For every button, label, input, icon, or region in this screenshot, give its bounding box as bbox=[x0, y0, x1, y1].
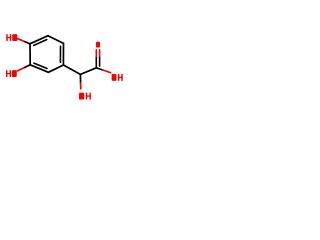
bond C7-OH (down to OH label, red half near O) bbox=[79, 74, 81, 82]
benzene ring bond C1-C2 (lower-left edge) bbox=[30, 65, 48, 73]
chemical structure: 3,4-dihydroxymandelic acid bbox=[0, 0, 130, 130]
label HO (lower-left) letter H bbox=[6, 70, 7, 77]
label OH (alpha-hydroxy) letter H bbox=[86, 93, 87, 100]
benzene ring bond C5-C6 (right edge) bbox=[62, 43, 64, 65]
bond C4-OH (to top-left HO label, red half near O) bbox=[18, 39, 25, 42]
label O (carbonyl oxygen) bbox=[96, 42, 100, 48]
label HO (top-left) letter H bbox=[6, 34, 7, 41]
bond C8-OH (to right OH label, red half near O) bbox=[96, 68, 102, 70]
benzene ring bond C4-C5 (upper-right edge) bbox=[48, 36, 64, 44]
label OH (carboxyl) letter O bbox=[112, 74, 117, 81]
carboxyl C8=O double bond line 2 (red near O, black near C) bbox=[99, 50, 101, 58]
carboxyl C8=O double bond line 1 (red near O, black near C) bbox=[95, 50, 97, 58]
label OH (carboxyl) letter H bbox=[118, 74, 119, 81]
label OH (alpha-hydroxy) letter O bbox=[79, 93, 84, 100]
bond C6-C7 (ring to CH carbon) bbox=[63, 65, 80, 74]
benzene ring bond C3-C4 (upper-left edge) bbox=[30, 36, 48, 44]
benzene ring double bond inner line (lower-left) bbox=[34, 63, 47, 68]
label HO (top-left) letter O bbox=[12, 34, 17, 41]
benzene ring double bond inner line (upper-left) bbox=[34, 40, 47, 46]
label HO (lower-left) letter O bbox=[12, 70, 17, 77]
benzene ring bond C6-C1 (lower-right edge) bbox=[48, 65, 63, 72]
bond C7-C8 (CH to carboxyl carbon) bbox=[80, 68, 96, 75]
benzene ring double bond inner line (right) bbox=[59, 46, 61, 62]
benzene ring bond C2-C3 (left edge) bbox=[29, 44, 31, 65]
bond C3-OH (to lower-left HO label, red half near O) bbox=[17, 67, 24, 71]
